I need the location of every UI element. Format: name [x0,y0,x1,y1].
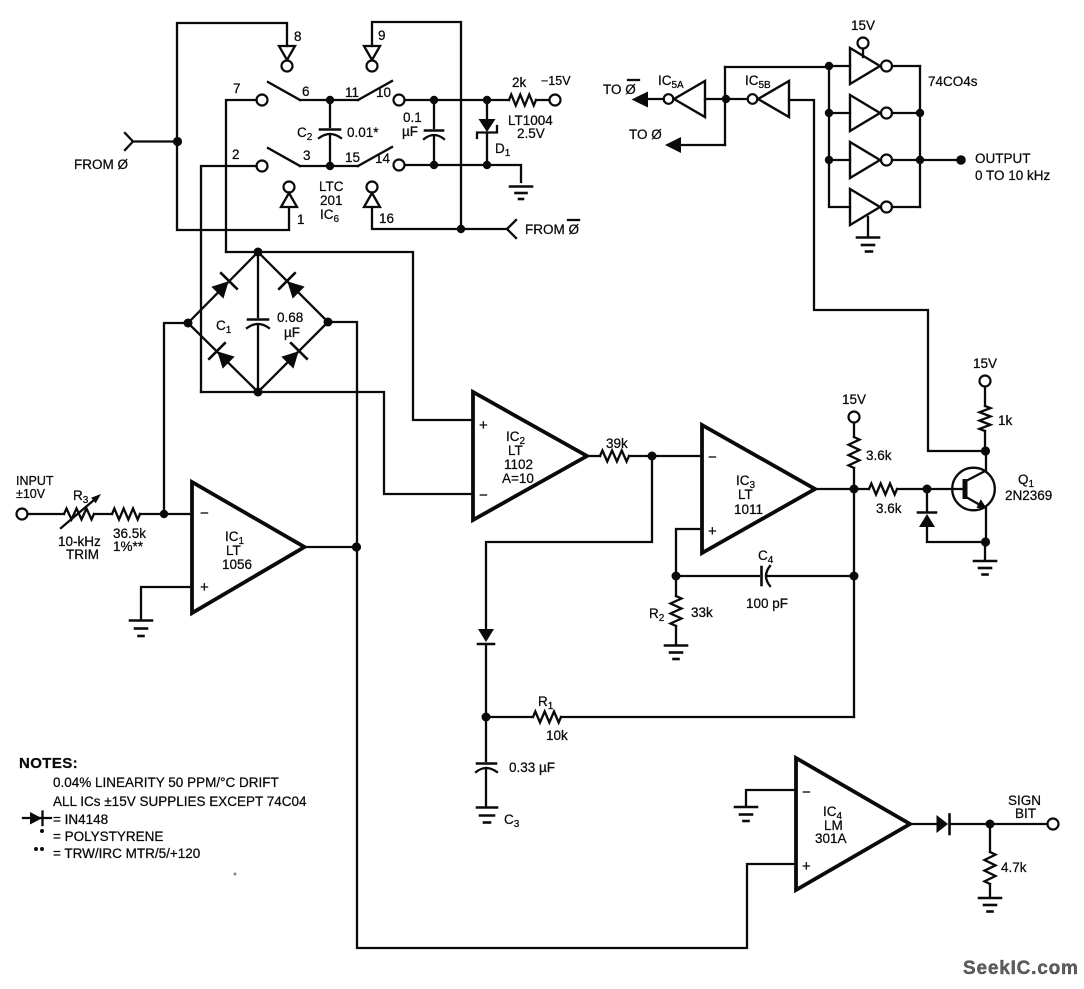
wire IC3 + input [676,529,701,576]
svg-text:LT: LT [508,443,523,458]
node rail inv1 [825,62,833,70]
svg-text:11: 11 [345,85,359,100]
terminal -15V [550,95,561,106]
ground IC1 [130,621,152,637]
svg-text:C1: C1 [216,318,232,336]
node bridge top [254,248,263,257]
node Q1 base [923,485,932,494]
svg-text:15: 15 [345,150,360,165]
svg-text:NOTES:: NOTES: [19,755,78,772]
switch arm 11-10 [358,81,392,100]
bridge diode bottom-left [209,343,236,370]
svg-text:BIT: BIT [1015,806,1036,821]
terminal 15V (1k) [980,376,991,387]
resistor 36.5k [112,509,140,520]
node out rail inv3 [916,156,924,164]
op-amp IC2 [473,392,587,520]
svg-text:LTC: LTC [319,179,344,194]
node 0.1uF top [430,96,438,104]
node bridge bottom [254,388,263,397]
svg-text:9: 9 [378,28,386,43]
svg-text:7: 7 [233,81,241,96]
note star symbol [40,829,44,833]
diode base clamp [918,489,985,542]
diode integrator reset [478,629,494,717]
svg-text:8: 8 [294,29,302,44]
pin 2 contact [257,161,268,172]
svg-text:D1: D1 [495,141,511,159]
arrow TO phi [665,137,681,153]
resistor R1 10k [486,712,854,723]
wire IC5A in [705,98,726,100]
svg-text:= TRW/IRC MTR/5/+120: = TRW/IRC MTR/5/+120 [53,846,200,861]
bridge diode bottom-right [280,343,307,370]
pin 1 symbol [281,182,297,208]
node R1 / C3 [482,713,491,722]
capacitor C1 0.68uF [247,252,269,392]
wire bridge top to IC2 + input [226,252,472,420]
arrow TO phi-bar [632,92,649,108]
wire IC1 output [305,546,357,548]
svg-text:OUTPUT: OUTPUT [975,151,1031,166]
overline on phi-bar [568,219,579,221]
svg-text:TRIM: TRIM [66,547,99,562]
wire summing node down to reset diode [486,456,652,629]
FROM phi-bar chevron [507,220,516,238]
resistor 2k [509,95,550,106]
node IC1 - input [160,510,168,518]
svg-text:IC5A: IC5A [658,73,684,91]
capacitor 0.1uF [424,100,444,165]
svg-text:TO Ø: TO Ø [629,127,662,142]
inverter buf4 [850,189,920,225]
node C4 right [850,572,859,581]
wire pin8 top rail / left rail / pin1 bottom [177,23,289,230]
pin 16 symbol [364,182,380,208]
node IC1 output [352,542,361,551]
wire IC4 output [910,823,937,825]
svg-text:FROM Ø: FROM Ø [74,157,128,172]
svg-text:15V: 15V [851,18,875,33]
node collector [981,446,990,455]
note diode symbol [23,812,51,826]
ground 4.7k [979,898,1001,912]
wire top junction to inverter rail [725,66,829,68]
inverter buf1 [829,48,920,84]
svg-text:74CO4s: 74CO4s [928,74,978,89]
pin 10 contact [394,95,405,106]
svg-text:µF: µF [402,124,418,139]
node D1 top [483,96,491,104]
terminal SIGN BIT [1048,819,1059,830]
svg-text:= POLYSTYRENE: = POLYSTYRENE [53,829,163,844]
svg-text:2k: 2k [512,75,527,90]
wire pin 2 to bridge-bottom rail [201,166,257,392]
svg-text:= IN4148: = IN4148 [53,812,108,827]
wire bridge right to IC1 out rail / bottom rail to IC4 + [328,322,795,948]
svg-text:1056: 1056 [222,557,252,572]
wire IC1 + to ground [141,587,192,619]
svg-text:1102: 1102 [504,457,533,472]
inverter IC5A [664,81,705,117]
overline TO phi-bar [628,79,639,81]
op-amp IC1 [192,482,305,613]
ground C3 [477,808,497,823]
svg-text:0.68: 0.68 [277,310,303,325]
svg-text:SeekIC.com: SeekIC.com [963,958,1079,979]
15V supply (74C04) [858,38,869,58]
stray mark [234,873,237,876]
node rail inv2 [825,109,833,117]
resistor 39k [600,451,629,462]
svg-text:R1: R1 [538,694,554,712]
svg-text:C3: C3 [504,812,520,830]
wire base [927,488,963,490]
svg-text:2.5V: 2.5V [517,126,545,141]
node OUTPUT terminal [956,155,966,165]
wire TO phi vertical [724,67,726,145]
svg-text:3.6k: 3.6k [866,448,892,463]
ground emitter [974,542,996,575]
svg-text:+: + [708,523,717,540]
svg-text:FROM Ø: FROM Ø [525,222,579,237]
svg-text:+: + [200,579,209,596]
svg-text:3.6k: 3.6k [876,501,902,516]
svg-text:0 TO 10 kHz: 0 TO 10 kHz [975,168,1051,183]
node IC3 output [850,485,859,494]
wire IC5A out [648,98,664,100]
wire OUTPUT [920,159,957,161]
wire top reference rail [405,99,510,101]
svg-text:2N2369: 2N2369 [1005,488,1052,503]
svg-text:R3: R3 [73,488,89,506]
wire R3 to 36.5k [94,513,112,515]
zener D1 [477,100,497,165]
pin 14 contact [394,160,405,171]
bridge diode top-right [279,273,306,300]
wire input rail [829,66,850,207]
ground reference [510,187,532,200]
inverter buf3 [829,142,920,178]
ground IC4 [735,807,757,821]
svg-text:3: 3 [303,148,311,163]
svg-text:A=10: A=10 [502,471,534,486]
switch arm 15-14 [358,147,392,166]
bridge diode top-left [210,273,237,300]
svg-text:IC5B: IC5B [745,73,771,91]
svg-text:39k: 39k [606,436,628,451]
pin 7 contact [257,95,268,106]
bridge diamond [188,252,328,392]
wire node 6-11 [300,99,358,101]
wire pin9 top / right rail [372,22,461,229]
svg-text:ALL ICs ±15V SUPPLIES EXCEPT 7: ALL ICs ±15V SUPPLIES EXCEPT 74C04 [53,794,307,809]
svg-text:14: 14 [375,151,391,166]
wire FROM phi stub [133,140,177,142]
svg-text:±10V: ±10V [16,487,46,501]
wire IC2 output [587,455,600,457]
resistor R3 trim [61,494,101,528]
terminal INPUT [17,509,28,520]
capacitor C2 [319,100,341,166]
wire pin 16 to FROM phi-bar [372,207,507,229]
terminal 15V (3.6k) [849,412,860,423]
node pin 6 [326,96,334,104]
node IC5 junction [722,95,730,103]
pin 8 symbol [279,46,295,72]
wire pin 7 to bridge-top rail [226,100,257,252]
node FROM-phi junction [173,137,182,146]
wire to IC1 - input [140,513,192,515]
resistor 4.7k [985,824,996,897]
node pin 3 [326,162,334,170]
switch arm 2-3 [268,148,300,166]
svg-text:IC6: IC6 [320,207,340,225]
capacitor C3 0.33uF [476,717,497,806]
wire IC3 output [815,488,869,490]
node bridge left [184,319,193,328]
resistor R2 33k [671,576,682,644]
svg-text:201: 201 [320,193,343,208]
FROM phi chevron [125,133,133,150]
resistor 3.6k series [869,484,927,495]
wire output rail [919,66,921,207]
svg-text:LT: LT [738,487,753,502]
svg-text:301A: 301A [815,831,847,846]
wire 39k to IC3 - input [629,455,701,457]
wire IC3 out rail down to R1 [853,489,855,717]
inverter IC5B [748,81,789,117]
op-amp IC4 [796,758,910,890]
wire bridge left to IC1 - node [164,323,188,514]
note double star symbol [34,847,44,851]
wire TO phi [681,144,725,146]
svg-text:1k: 1k [998,413,1013,428]
node phi-bar junction [457,225,465,233]
svg-text:µF: µF [284,325,300,340]
node 0.1uF bottom [430,161,438,169]
svg-text:TO Ø: TO Ø [603,82,636,97]
op-amp IC3 [702,425,815,553]
svg-text:INPUT: INPUT [16,474,54,488]
node C4 left [672,572,681,581]
svg-text:6: 6 [302,84,310,99]
svg-text:0.33 µF: 0.33 µF [509,760,555,775]
svg-text:0.1: 0.1 [403,110,422,125]
wire IC4 - to ground [746,790,796,806]
svg-text:0.01*: 0.01* [347,125,379,140]
diode sign bit [937,815,1048,835]
ground R2 [665,646,687,660]
svg-text:16: 16 [379,211,394,226]
svg-text:−: − [200,505,209,522]
wire bottom reference rail [405,165,522,182]
svg-text:4.7k: 4.7k [1001,860,1027,875]
svg-text:−: − [802,784,811,801]
svg-text:15V: 15V [842,392,866,407]
svg-text:+: + [802,858,811,875]
wire IC5B out to IC5A in [726,98,748,100]
svg-text:10k: 10k [546,728,568,743]
pin 9 symbol [364,46,380,72]
svg-text:10: 10 [376,85,391,100]
node emitter [981,537,990,546]
inverter buf2 [829,95,920,131]
ground buf4 [857,217,879,252]
svg-text:15V: 15V [973,356,997,371]
svg-text:R2: R2 [649,606,665,624]
node out rail inv2 [916,109,924,117]
svg-text:−: − [708,449,717,466]
svg-text:LT: LT [226,543,241,558]
svg-text:+: + [479,417,488,434]
svg-text:−: − [479,487,488,504]
svg-text:−15V: −15V [541,74,571,88]
switch arm 7-6 [268,82,300,100]
svg-text:100 pF: 100 pF [746,596,788,611]
capacitor C4 100pF [676,566,854,586]
node bridge right [324,318,333,327]
wire node 3-15 [300,165,358,167]
transistor Q1 2N2369 [952,451,995,542]
svg-text:1%**: 1%** [113,539,144,554]
node summing [648,452,657,461]
svg-text:1: 1 [297,212,305,227]
svg-text:1011: 1011 [734,502,763,517]
node 4.7k [986,820,995,829]
wire bridge bottom to IC2 - input [201,392,472,494]
resistor 1k [980,387,991,452]
svg-text:C2: C2 [297,125,313,143]
node rail inv3 [825,156,833,164]
node D1 bottom [483,161,491,169]
svg-text:33k: 33k [691,605,713,620]
wire input [28,513,65,515]
svg-text:0.04% LINEARITY 50 PPM/°C DRIF: 0.04% LINEARITY 50 PPM/°C DRIFT [53,775,279,790]
resistor 3.6k pull-up [849,423,860,490]
svg-text:2: 2 [232,147,240,162]
svg-text:C4: C4 [758,548,774,566]
wire collector to IC5B input [789,100,985,451]
